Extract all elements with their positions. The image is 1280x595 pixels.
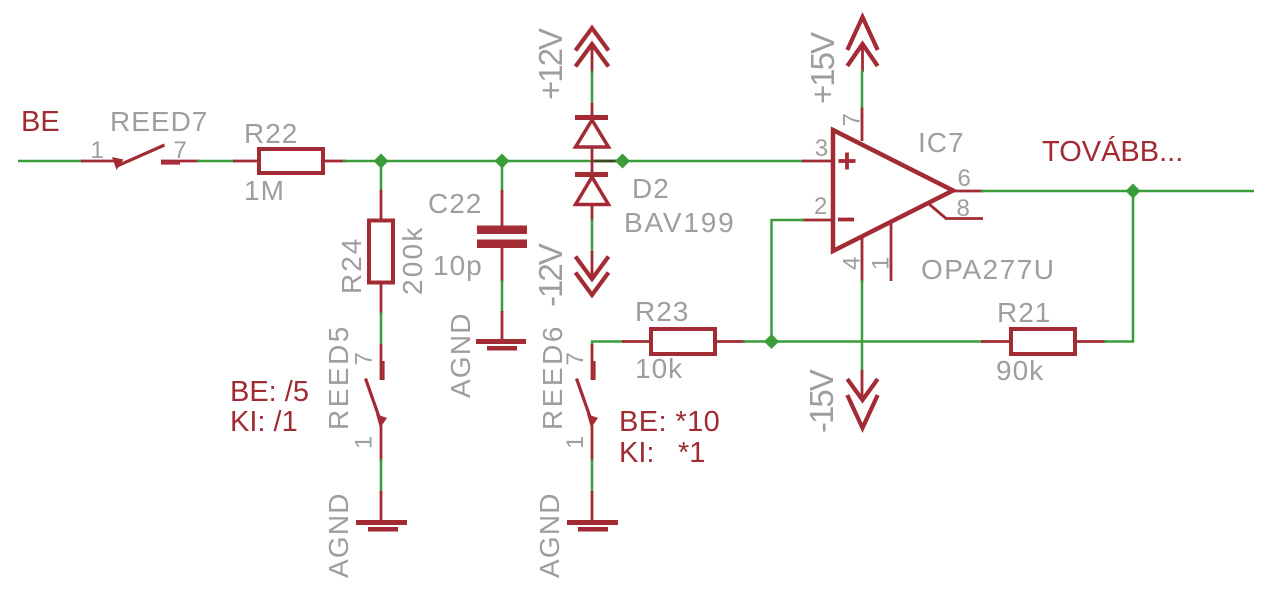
IC7 minus sign bbox=[838, 218, 854, 222]
wire D2 to -12V bbox=[591, 219, 594, 253]
diode D2 lower half bbox=[575, 160, 609, 221]
REED5 arrow tip bbox=[376, 414, 387, 428]
svg-text:BE: *10: BE: *10 bbox=[619, 406, 720, 438]
svg-text:1: 1 bbox=[351, 436, 378, 449]
IC7 pin 2 stub bbox=[802, 219, 833, 222]
wire REED5 to AGND bbox=[380, 459, 383, 493]
switch REED7 bbox=[81, 106, 208, 170]
D2 upper triangle bbox=[576, 120, 609, 147]
REED7 contact bar bbox=[161, 162, 180, 164]
svg-text:7: 7 bbox=[174, 137, 187, 164]
op-amp IC7 bbox=[802, 107, 1056, 285]
REED7 pin 7 stub bbox=[161, 160, 199, 163]
ground AGND under REED6 bbox=[534, 491, 618, 578]
resistor R22 bbox=[233, 118, 346, 206]
svg-text:-12V: -12V bbox=[532, 243, 569, 307]
C22 bottom plate bbox=[477, 240, 527, 249]
REED6 pin 7 stub bbox=[591, 344, 594, 380]
REED7 arrow tip bbox=[112, 157, 124, 170]
svg-text:R23: R23 bbox=[635, 296, 689, 327]
switch REED5 bbox=[323, 324, 387, 461]
capacitor C22 bbox=[428, 188, 527, 282]
svg-text:90k: 90k bbox=[996, 355, 1044, 386]
R23 body bbox=[651, 329, 715, 354]
svg-text:BAV199: BAV199 bbox=[624, 207, 735, 238]
AGND pin stub bbox=[591, 491, 594, 521]
node junction at D2 tap bbox=[615, 154, 630, 169]
D2 upper pin stub bbox=[591, 103, 594, 117]
REED6 blade bbox=[577, 379, 593, 425]
svg-text:6: 6 bbox=[958, 165, 971, 192]
REED6 pin 1 stub bbox=[591, 425, 594, 461]
IC7 pin 6 stub bbox=[951, 190, 983, 193]
svg-text:+12V: +12V bbox=[532, 28, 569, 100]
svg-text:10p: 10p bbox=[433, 250, 483, 281]
svg-text:1: 1 bbox=[91, 137, 104, 164]
svg-text:OPA277U: OPA277U bbox=[921, 254, 1056, 285]
svg-text:*1: *1 bbox=[678, 437, 705, 469]
svg-text:KI: /1: KI: /1 bbox=[230, 406, 298, 438]
wire overlap dark segment at D2 connection bbox=[591, 160, 617, 163]
R22 body bbox=[259, 149, 323, 173]
C22 bottom pin stub bbox=[501, 248, 504, 282]
svg-text:BE: /5: BE: /5 bbox=[230, 376, 309, 408]
svg-text:+15V: +15V bbox=[804, 32, 841, 104]
supply +15V arrow symbol bbox=[847, 17, 877, 66]
wire REED7 to R22 bbox=[197, 160, 236, 163]
svg-text:KI:: KI: bbox=[619, 437, 654, 469]
svg-text:R24: R24 bbox=[336, 237, 367, 294]
wire feedback vertical from pin 2 bbox=[770, 219, 773, 343]
wire +12V arrow stem bbox=[591, 44, 594, 73]
REED7 pin 1 stub bbox=[81, 160, 115, 163]
ground AGND under REED5 bbox=[323, 491, 407, 578]
wire junction down to R24 bbox=[380, 161, 383, 192]
supply -15V arrow symbol bbox=[847, 379, 877, 428]
wire feedback junction to R21 bbox=[771, 340, 983, 343]
REED5 pin 1 stub bbox=[380, 425, 383, 461]
switch REED6 bbox=[537, 324, 598, 461]
C22 top plate bbox=[477, 226, 527, 235]
resistor R24 bbox=[336, 190, 428, 314]
svg-text:2: 2 bbox=[814, 193, 827, 220]
svg-text:3: 3 bbox=[815, 135, 828, 162]
svg-text:R21: R21 bbox=[997, 297, 1051, 328]
R21 left pin stub bbox=[981, 340, 1012, 343]
svg-text:IC7: IC7 bbox=[918, 127, 965, 158]
D2 lower cathode stub bbox=[591, 160, 594, 174]
AGND short bar bbox=[487, 346, 517, 351]
wire junction down to C22 bbox=[501, 161, 504, 192]
D2 lower triangle bbox=[576, 177, 609, 205]
svg-text:R22: R22 bbox=[244, 118, 298, 149]
svg-text:TOVÁBB...: TOVÁBB... bbox=[1042, 135, 1183, 168]
svg-text:7: 7 bbox=[351, 352, 378, 365]
D2 upper anode stub bbox=[591, 147, 594, 162]
node junction at R24 tap bbox=[374, 154, 389, 169]
svg-text:AGND: AGND bbox=[323, 492, 354, 578]
wire +15V arrow stem bbox=[861, 44, 864, 72]
wire R24 to REED5 bbox=[380, 312, 383, 346]
wire IC7 pin 4 down bbox=[861, 280, 864, 371]
wire output net TOVÁBB bbox=[981, 190, 1254, 193]
svg-text:7: 7 bbox=[839, 113, 866, 126]
wire net BE main horizontal left segment bbox=[18, 160, 84, 163]
R24 top pin stub bbox=[380, 190, 383, 222]
D2 upper cathode bar bbox=[575, 115, 608, 120]
R22 right pin stub bbox=[322, 160, 346, 163]
svg-text:REED5: REED5 bbox=[323, 324, 354, 430]
R21 body bbox=[1011, 329, 1075, 354]
AGND long bar bbox=[476, 339, 526, 344]
wire R21 to output bend bbox=[1104, 190, 1133, 342]
svg-text:1: 1 bbox=[562, 436, 589, 449]
ground AGND under C22 bbox=[445, 311, 526, 398]
R22 left pin stub bbox=[233, 160, 260, 163]
REED5 pin 7 stub bbox=[380, 344, 383, 380]
resistor R21 bbox=[981, 297, 1106, 386]
svg-text:AGND: AGND bbox=[534, 492, 565, 578]
wire +15V to IC7 pin 7 bbox=[861, 70, 864, 108]
AGND long bar bbox=[567, 520, 618, 525]
supply +12V arrow symbol bbox=[576, 28, 609, 67]
svg-text:8: 8 bbox=[957, 195, 970, 222]
D2 lower cathode bar bbox=[575, 172, 608, 177]
IC7 pin 3 stub bbox=[802, 160, 833, 163]
node junction output tap bbox=[1126, 184, 1141, 199]
wire REED6 to AGND bbox=[591, 459, 594, 493]
node junction feedback tap bbox=[764, 334, 779, 349]
svg-text:200k: 200k bbox=[397, 225, 428, 295]
wire -12V arrow stem bbox=[591, 251, 594, 278]
R24 body bbox=[369, 221, 393, 283]
svg-text:D2: D2 bbox=[632, 173, 670, 204]
svg-text:REED6: REED6 bbox=[537, 324, 568, 430]
IC7 pin 4 stub bbox=[861, 238, 864, 282]
svg-text:-15V: -15V bbox=[803, 369, 840, 433]
AGND long bar bbox=[356, 520, 407, 525]
svg-text:1: 1 bbox=[868, 257, 895, 270]
svg-text:BE: BE bbox=[21, 106, 60, 138]
REED6 contact bar bbox=[593, 361, 595, 380]
REED5 blade bbox=[366, 379, 382, 425]
IC7 pin 8 stub bbox=[929, 204, 983, 219]
R23 left pin stub bbox=[622, 340, 652, 343]
D2 lower anode stub bbox=[591, 204, 594, 221]
IC7 pin 7 stub bbox=[861, 107, 864, 141]
wire R23 to feedback junction bbox=[743, 340, 773, 343]
REED7 blade bbox=[117, 145, 165, 166]
AGND short bar bbox=[368, 527, 398, 532]
AGND pin stub bbox=[501, 311, 504, 340]
svg-text:AGND: AGND bbox=[445, 312, 476, 398]
wire -15V arrow stem bbox=[861, 370, 864, 400]
wire R22 to op-amp pin 3 (main net) bbox=[343, 160, 804, 163]
resistor R23 bbox=[622, 296, 745, 384]
C22 top pin stub bbox=[501, 190, 504, 227]
svg-text:1M: 1M bbox=[244, 175, 285, 206]
REED6 arrow tip bbox=[587, 414, 598, 428]
IC7 triangle body bbox=[833, 130, 953, 251]
svg-text:10k: 10k bbox=[635, 353, 683, 384]
R24 bottom pin stub bbox=[380, 282, 383, 314]
svg-text:REED7: REED7 bbox=[110, 106, 208, 137]
svg-text:C22: C22 bbox=[428, 188, 482, 219]
diode D2 upper half bbox=[575, 103, 609, 162]
IC7 plus sign bbox=[839, 153, 856, 170]
wire +12V to D2 bbox=[591, 71, 594, 104]
R21 right pin stub bbox=[1075, 340, 1106, 343]
wire C22 to AGND bbox=[501, 280, 504, 313]
supply -12V arrow symbol bbox=[576, 257, 609, 296]
node junction at C22 tap bbox=[495, 154, 510, 169]
R23 right pin stub bbox=[714, 340, 745, 343]
wire IC7 pin 2 horizontal bbox=[772, 219, 805, 222]
svg-text:4: 4 bbox=[839, 257, 866, 270]
AGND pin stub bbox=[380, 491, 383, 521]
AGND short bar bbox=[578, 527, 608, 532]
REED5 contact bar bbox=[382, 361, 384, 380]
wire REED6 bend to R23 bbox=[591, 341, 624, 347]
IC7 pin 1 stub bbox=[890, 222, 893, 281]
